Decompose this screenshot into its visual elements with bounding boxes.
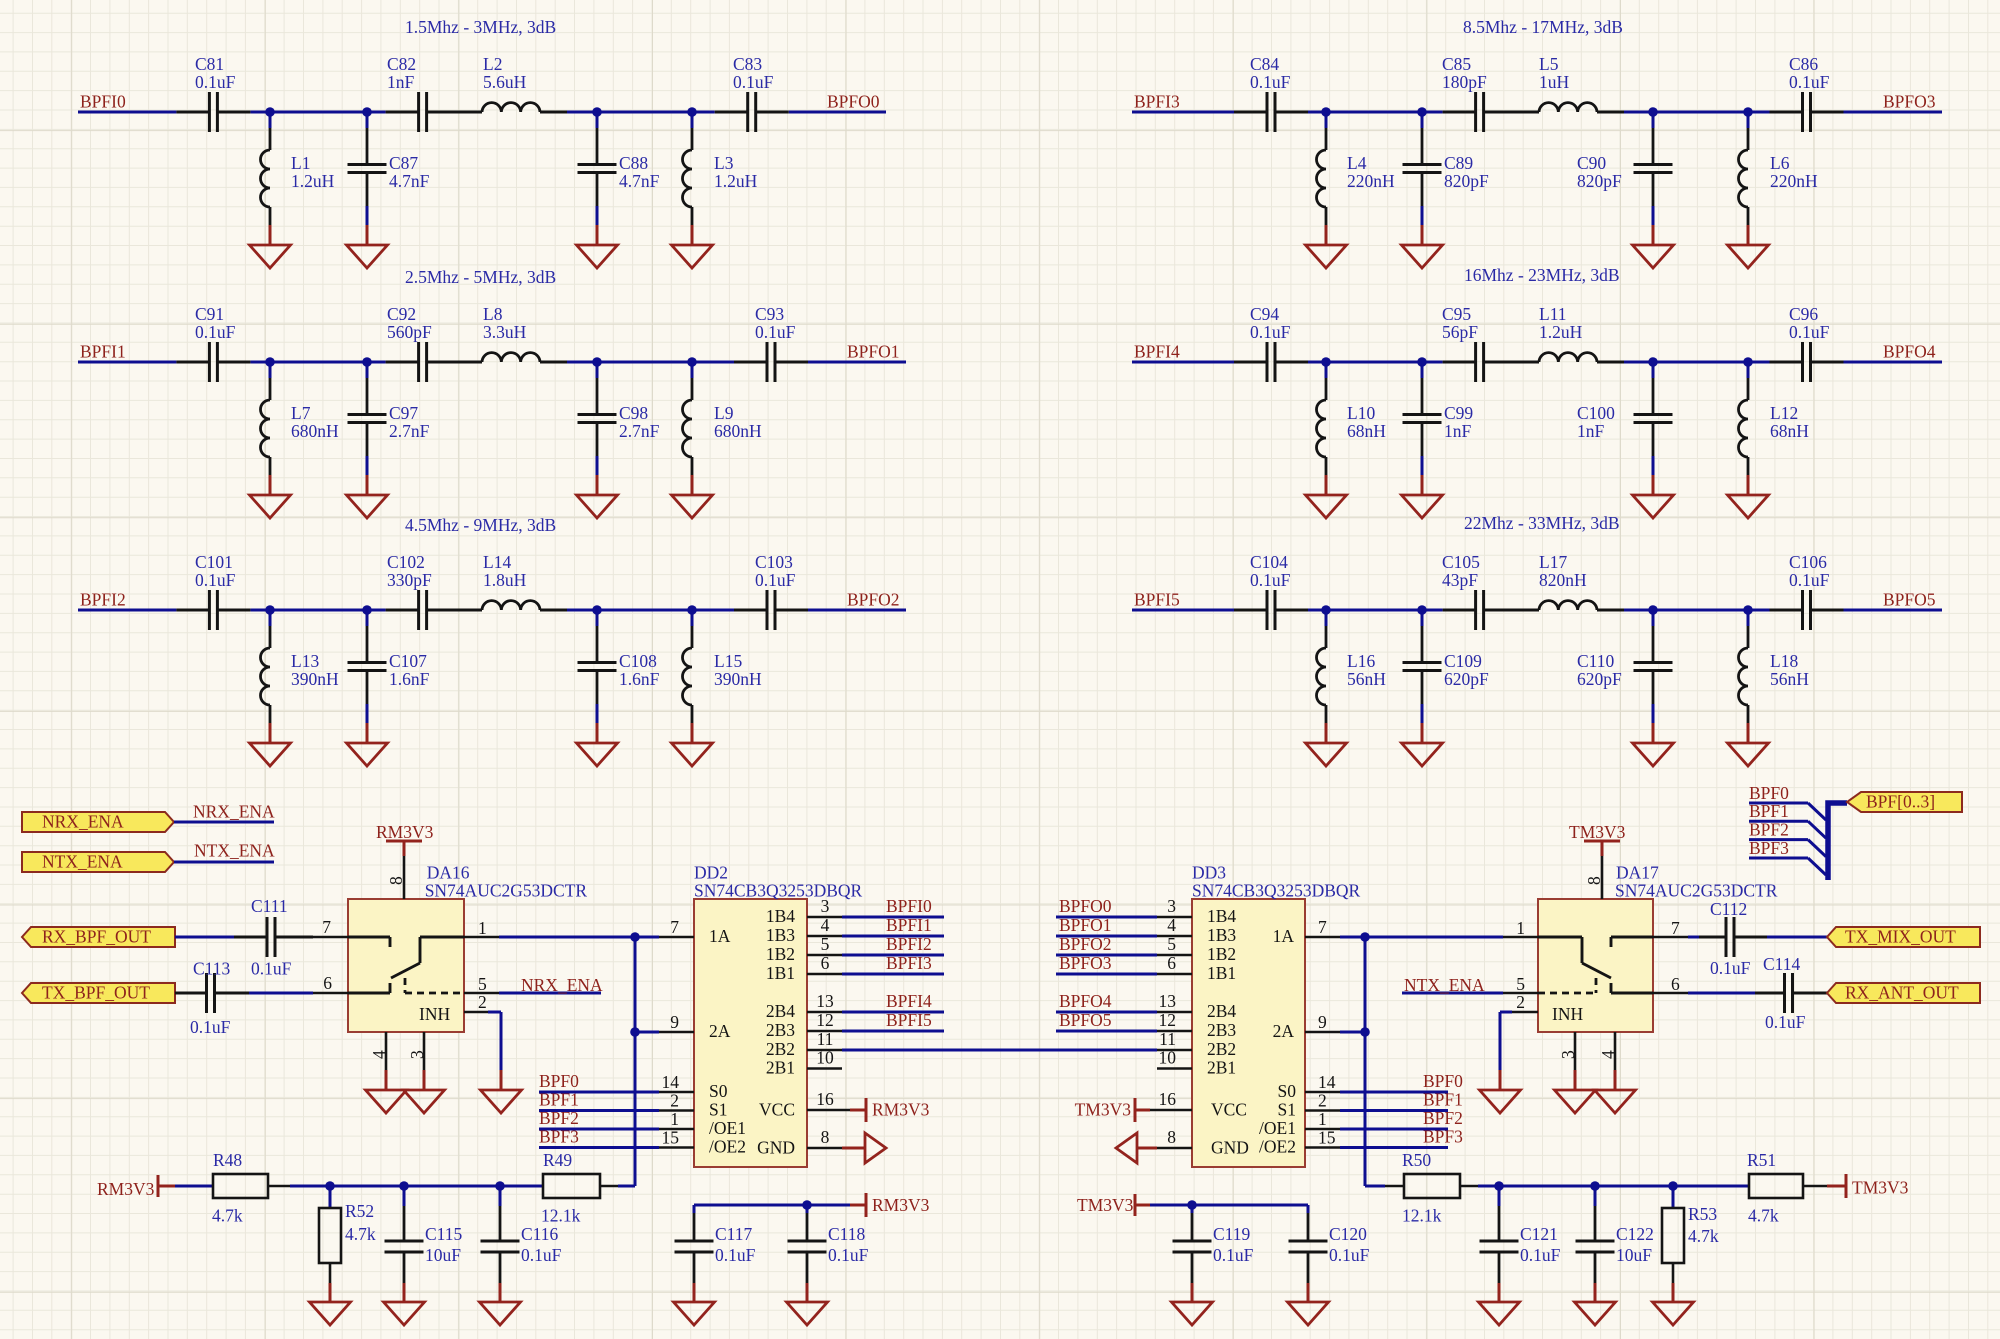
ground for C108 — [577, 743, 618, 766]
svg-text:BPF3: BPF3 — [539, 1127, 579, 1147]
ground for L10 — [1306, 495, 1347, 518]
svg-text:1.6nF: 1.6nF — [619, 669, 660, 689]
svg-text:680nH: 680nH — [714, 421, 762, 441]
svg-text:4.7nF: 4.7nF — [389, 171, 430, 191]
wire R48 to R49 — [268, 1185, 290, 1188]
junction — [362, 107, 372, 117]
svg-text:BPFO5: BPFO5 — [1883, 590, 1936, 610]
capacitor C107 — [366, 610, 369, 626]
svg-text:C96: C96 — [1789, 304, 1818, 324]
svg-text:C94: C94 — [1250, 304, 1279, 324]
svg-text:0.1uF: 0.1uF — [1765, 1012, 1806, 1032]
svg-text:L2: L2 — [483, 54, 502, 74]
svg-text:0.1uF: 0.1uF — [521, 1245, 562, 1265]
DA16 pin 7 — [313, 936, 348, 939]
svg-text:BPF0: BPF0 — [1749, 783, 1789, 803]
junction — [1417, 107, 1427, 117]
ground for C88 — [577, 245, 618, 268]
svg-text:BPFI5: BPFI5 — [886, 1010, 932, 1030]
svg-text:2B3: 2B3 — [766, 1020, 795, 1040]
capacitor C87 — [366, 112, 369, 128]
svg-text:INH: INH — [1552, 1004, 1583, 1024]
power RM3V3 — [865, 1193, 868, 1217]
svg-text:0.1uF: 0.1uF — [828, 1245, 869, 1265]
svg-text:INH: INH — [419, 1004, 450, 1024]
svg-text:/OE2: /OE2 — [709, 1137, 746, 1157]
svg-text:8: 8 — [821, 1127, 830, 1147]
ground for L4 — [1306, 245, 1347, 268]
DD2 pin 7 — [659, 936, 694, 939]
svg-text:TM3V3: TM3V3 — [1852, 1178, 1909, 1198]
svg-text:NTX_ENA: NTX_ENA — [1404, 975, 1485, 995]
wire BPFI1-C91 internal segments — [250, 361, 385, 364]
svg-text:L9: L9 — [714, 403, 734, 423]
wire net BPFI0 segment — [78, 111, 176, 114]
port BPF[0..3] — [1847, 792, 1962, 812]
svg-text:C113: C113 — [193, 959, 231, 979]
svg-text:BPFO1: BPFO1 — [847, 342, 900, 362]
svg-text:L1: L1 — [291, 153, 310, 173]
svg-text:BPFI4: BPFI4 — [886, 991, 932, 1011]
ground for C107 — [347, 743, 388, 766]
inductor L7 — [269, 362, 272, 378]
DA17 pin 4 — [1614, 1032, 1617, 1070]
svg-text:BPFO5: BPFO5 — [1059, 1010, 1112, 1030]
wire net BPFO0 segment — [789, 111, 886, 114]
svg-text:2B4: 2B4 — [1207, 1001, 1236, 1021]
capacitor C111 — [234, 936, 267, 939]
DD3 pin 2 — [1305, 1109, 1340, 1112]
junction — [687, 107, 697, 117]
svg-text:16Mhz - 23MHz, 3dB: 16Mhz - 23MHz, 3dB — [1464, 265, 1620, 285]
svg-text:1B4: 1B4 — [1207, 906, 1236, 926]
junction — [1648, 357, 1658, 367]
svg-text:1.6nF: 1.6nF — [389, 669, 430, 689]
ground for L6 — [1728, 245, 1769, 268]
svg-text:DD3: DD3 — [1192, 863, 1226, 883]
capacitor C97 — [366, 362, 369, 378]
svg-text:2B1: 2B1 — [766, 1058, 795, 1078]
DD2 pin 5 — [807, 954, 842, 957]
port RX_ANT_OUT — [1827, 983, 1980, 1003]
DA17 switch symbol — [1611, 936, 1653, 939]
resistor R50 — [1404, 1174, 1460, 1198]
DD2 pin 10 — [807, 1067, 842, 1070]
svg-text:2A: 2A — [709, 1021, 731, 1041]
svg-text:7: 7 — [322, 917, 331, 937]
DD2 pin 8 GND — [807, 1147, 842, 1150]
wire DA17 pin 2 to ground — [1500, 1011, 1512, 1014]
svg-text:2B1: 2B1 — [1207, 1058, 1236, 1078]
capacitor C92 — [386, 361, 419, 364]
capacitor C82 — [386, 111, 419, 114]
inductor L4 — [1325, 112, 1328, 128]
inductor L18 — [1747, 610, 1750, 626]
svg-text:BPF0: BPF0 — [1423, 1071, 1463, 1091]
svg-text:GND: GND — [757, 1137, 795, 1157]
inductor L12 — [1747, 362, 1750, 378]
wire net BPF3 bus entry — [1749, 857, 1808, 860]
svg-text:C92: C92 — [387, 304, 416, 324]
capacitor C105 — [1443, 609, 1476, 612]
svg-text:R49: R49 — [543, 1150, 572, 1170]
port NRX_ENA — [22, 812, 174, 832]
svg-text:C110: C110 — [1577, 651, 1615, 671]
svg-text:L11: L11 — [1539, 304, 1567, 324]
svg-text:10: 10 — [816, 1048, 834, 1068]
junction — [399, 1181, 409, 1191]
svg-text:2.5Mhz - 5MHz, 3dB: 2.5Mhz - 5MHz, 3dB — [405, 267, 556, 287]
ground at DA17 pin 2 — [1480, 1090, 1521, 1113]
power ground arrow left — [1116, 1133, 1137, 1163]
svg-text:3.3uH: 3.3uH — [483, 322, 527, 342]
wire net BPFO2 segment — [808, 609, 906, 612]
svg-text:BPF2: BPF2 — [1749, 820, 1789, 840]
svg-text:330pF: 330pF — [387, 570, 432, 590]
capacitor C106 — [1770, 609, 1803, 612]
ground for L13 — [250, 743, 291, 766]
svg-text:2B2: 2B2 — [766, 1039, 795, 1059]
svg-text:4: 4 — [1598, 1050, 1618, 1059]
svg-text:22Mhz - 33MHz, 3dB: 22Mhz - 33MHz, 3dB — [1464, 513, 1620, 533]
junction — [630, 1027, 640, 1037]
ground for C116 — [480, 1302, 521, 1325]
DD2 pin 1 — [659, 1128, 694, 1131]
DD3 pin 3 — [1157, 916, 1192, 919]
port TX_BPF_OUT — [22, 983, 175, 1003]
wire net BPFO4 — [1056, 1011, 1157, 1014]
svg-text:L8: L8 — [483, 304, 503, 324]
svg-text:16: 16 — [1159, 1089, 1177, 1109]
svg-text:RX_BPF_OUT: RX_BPF_OUT — [42, 927, 151, 947]
ground for L9 — [672, 495, 713, 518]
svg-text:C100: C100 — [1577, 403, 1615, 423]
svg-text:0.1uF: 0.1uF — [251, 959, 292, 979]
DD2 pin 15 — [659, 1146, 694, 1149]
wire net BPF3 — [539, 1146, 659, 1149]
wire DA16 pin 2 to ground — [488, 1011, 501, 1014]
svg-text:C95: C95 — [1442, 304, 1471, 324]
wire net BPFI1 — [842, 935, 944, 938]
inductor L11 — [1512, 361, 1539, 364]
svg-text:C117: C117 — [715, 1224, 753, 1244]
svg-text:BPF3: BPF3 — [1423, 1127, 1463, 1147]
svg-text:BPFI3: BPFI3 — [886, 953, 932, 973]
svg-text:SN74AUC2G53DCTR: SN74AUC2G53DCTR — [425, 881, 588, 901]
DD3 pin 10 — [1157, 1067, 1192, 1070]
svg-text:S0: S0 — [709, 1081, 728, 1101]
svg-text:C85: C85 — [1442, 54, 1471, 74]
svg-text:VCC: VCC — [1211, 1100, 1247, 1120]
svg-text:820pF: 820pF — [1444, 171, 1489, 191]
svg-text:43pF: 43pF — [1442, 570, 1478, 590]
svg-text:0.1uF: 0.1uF — [755, 570, 796, 590]
svg-text:8: 8 — [1167, 1127, 1176, 1147]
wire net BPFI2 segment — [78, 609, 176, 612]
wire BPFI3-C84 internal segments — [1308, 111, 1443, 114]
svg-text:C97: C97 — [389, 403, 418, 423]
svg-text:C114: C114 — [1763, 954, 1801, 974]
ground for R52 — [310, 1302, 351, 1325]
svg-text:0.1uF: 0.1uF — [1250, 570, 1291, 590]
DD2 pin 13 — [807, 1011, 842, 1014]
svg-text:TM3V3: TM3V3 — [1077, 1195, 1134, 1215]
svg-text:BPF0: BPF0 — [539, 1071, 579, 1091]
svg-text:C122: C122 — [1616, 1224, 1654, 1244]
wire net BPFO4 segment — [1844, 361, 1943, 364]
svg-text:56pF: 56pF — [1442, 322, 1478, 342]
wire net BPFI4 — [842, 1011, 944, 1014]
power RM3V3 — [386, 840, 422, 843]
DD3 pin 4 — [1157, 935, 1192, 938]
capacitor C89 — [1421, 112, 1424, 128]
ground for L3 — [672, 245, 713, 268]
svg-text:820nH: 820nH — [1539, 570, 1587, 590]
svg-text:L10: L10 — [1347, 403, 1375, 423]
svg-text:BPFI0: BPFI0 — [886, 896, 932, 916]
wire DD3 pin 9 — [1340, 1031, 1365, 1034]
svg-text:DA17: DA17 — [1616, 863, 1659, 883]
svg-text:1A: 1A — [709, 926, 731, 946]
svg-text:1.2uH: 1.2uH — [714, 171, 758, 191]
svg-text:NTX_ENA: NTX_ENA — [194, 841, 275, 861]
power TM3V3 — [1134, 1098, 1137, 1122]
svg-text:0.1uF: 0.1uF — [1329, 1245, 1370, 1265]
DD3 pin 9 — [1305, 1031, 1340, 1034]
wire vertical to R50 — [1365, 1185, 1385, 1188]
wire DA17 pin6 to C114 — [1688, 992, 1755, 995]
svg-text:5: 5 — [1167, 934, 1176, 954]
svg-text:C107: C107 — [389, 651, 427, 671]
svg-text:8.5Mhz - 17MHz, 3dB: 8.5Mhz - 17MHz, 3dB — [1463, 17, 1623, 37]
DD3 pin 6 — [1157, 973, 1192, 976]
ground for R53 — [1653, 1302, 1694, 1325]
svg-text:1B2: 1B2 — [766, 944, 795, 964]
svg-text:BPF2: BPF2 — [1423, 1108, 1463, 1128]
power TM3V3 — [1845, 1174, 1848, 1198]
DD3 pin 8 GND — [1157, 1147, 1192, 1150]
inductor L14 — [455, 609, 482, 612]
svg-text:56nH: 56nH — [1347, 669, 1386, 689]
svg-text:L17: L17 — [1539, 552, 1567, 572]
svg-text:TX_BPF_OUT: TX_BPF_OUT — [42, 983, 150, 1003]
svg-text:BPFI0: BPFI0 — [80, 92, 126, 112]
DD3 pin 11 — [1157, 1049, 1192, 1052]
svg-text:1.5Mhz - 3MHz, 3dB: 1.5Mhz - 3MHz, 3dB — [405, 17, 556, 37]
capacitor C85 — [1443, 111, 1476, 114]
power ground arrow right — [865, 1133, 886, 1163]
svg-text:/OE1: /OE1 — [709, 1118, 746, 1138]
capacitor C122 — [1594, 1186, 1597, 1206]
junction — [1743, 107, 1753, 117]
inductor L16 — [1325, 610, 1328, 626]
capacitor C88 — [596, 112, 599, 128]
svg-text:2.7nF: 2.7nF — [389, 421, 430, 441]
svg-text:5: 5 — [478, 974, 487, 994]
svg-text:L12: L12 — [1770, 403, 1798, 423]
svg-text:BPF[0..3]: BPF[0..3] — [1866, 792, 1935, 812]
wire net BPF1 — [1340, 1109, 1448, 1112]
wire net BPFO3 segment — [1844, 111, 1943, 114]
svg-text:RM3V3: RM3V3 — [376, 822, 434, 842]
analog switch DA16 SN74AUC2G53DCTR — [348, 899, 464, 1032]
capacitor C116 — [499, 1186, 502, 1206]
svg-text:VCC: VCC — [759, 1100, 795, 1120]
junction — [1321, 357, 1331, 367]
svg-text:C83: C83 — [733, 54, 762, 74]
analog switch DA17 SN74AUC2G53DCTR — [1538, 899, 1653, 1032]
capacitor C83 — [715, 111, 748, 114]
svg-text:BPF2: BPF2 — [539, 1108, 579, 1128]
capacitor C110 — [1652, 610, 1655, 626]
capacitor C117 — [693, 1205, 696, 1213]
svg-text:12: 12 — [816, 1010, 834, 1030]
capacitor C102 — [386, 609, 419, 612]
svg-text:RM3V3: RM3V3 — [872, 1195, 930, 1215]
svg-text:C87: C87 — [389, 153, 418, 173]
svg-text:C105: C105 — [1442, 552, 1480, 572]
svg-text:C91: C91 — [195, 304, 224, 324]
svg-text:TM3V3: TM3V3 — [1075, 1100, 1132, 1120]
svg-text:9: 9 — [670, 1012, 679, 1032]
ground for C97 — [347, 495, 388, 518]
DA16 pin 3 — [423, 1032, 426, 1070]
svg-text:0.1uF: 0.1uF — [1789, 72, 1830, 92]
svg-text:C119: C119 — [1213, 1224, 1251, 1244]
svg-text:C99: C99 — [1444, 403, 1473, 423]
svg-text:5: 5 — [1516, 974, 1525, 994]
DA16 pin 8 — [403, 856, 406, 899]
svg-text:6: 6 — [1671, 974, 1680, 994]
junction — [265, 605, 275, 615]
svg-text:0.1uF: 0.1uF — [195, 72, 236, 92]
wire DD3 pin7 to DA17 pin1 — [1340, 936, 1503, 939]
svg-text:2: 2 — [1318, 1091, 1327, 1111]
svg-text:4.7nF: 4.7nF — [619, 171, 660, 191]
svg-text:NRX_ENA: NRX_ENA — [193, 802, 275, 822]
svg-text:4.7k: 4.7k — [1748, 1206, 1779, 1226]
svg-text:BPFI4: BPFI4 — [1134, 342, 1180, 362]
DD3 pin 15 — [1305, 1146, 1340, 1149]
svg-text:8: 8 — [386, 876, 406, 885]
svg-text:0.1uF: 0.1uF — [1789, 570, 1830, 590]
DA16 pin 6 — [313, 992, 348, 995]
wire net BPFO2 — [1056, 954, 1157, 957]
wire RM3V3 to R48 — [175, 1185, 213, 1188]
svg-text:C102: C102 — [387, 552, 425, 572]
svg-text:11: 11 — [817, 1029, 834, 1049]
wire BPFI2-C101 internal segments — [250, 609, 385, 612]
DA17 pin 2 — [1512, 1011, 1538, 1014]
wire net BPF0 bus entry — [1749, 802, 1808, 805]
svg-text:10: 10 — [1159, 1048, 1177, 1068]
inductor L1 — [269, 112, 272, 128]
svg-text:0.1uF: 0.1uF — [1250, 72, 1291, 92]
svg-text:C89: C89 — [1444, 153, 1473, 173]
ground for C110 — [1633, 743, 1674, 766]
inductor L15 — [691, 610, 694, 626]
capacitor C119 — [1191, 1205, 1194, 1213]
svg-text:6: 6 — [323, 973, 332, 993]
svg-text:12: 12 — [1159, 1010, 1177, 1030]
svg-text:2.7nF: 2.7nF — [619, 421, 660, 441]
svg-text:SN74AUC2G53DCTR: SN74AUC2G53DCTR — [1615, 881, 1778, 901]
inductor L5 — [1512, 111, 1539, 114]
junction — [1321, 107, 1331, 117]
DA16 switch symbol — [348, 936, 390, 939]
svg-text:C81: C81 — [195, 54, 224, 74]
svg-text:13: 13 — [1159, 991, 1177, 1011]
junction — [1321, 605, 1331, 615]
DD2 pin 9 — [659, 1031, 694, 1034]
port RX_BPF_OUT — [22, 927, 175, 947]
wire net BPFI3 segment — [1132, 111, 1234, 114]
wire BPFI4-C94 internal segments — [1308, 361, 1443, 364]
DA17 pin 6 — [1653, 992, 1688, 995]
wire net BPF2 — [1340, 1128, 1448, 1131]
inductor L17 — [1512, 609, 1539, 612]
svg-text:1: 1 — [478, 918, 487, 938]
svg-text:12.1k: 12.1k — [541, 1206, 581, 1226]
svg-text:NRX_ENA: NRX_ENA — [42, 812, 124, 832]
junction — [1417, 357, 1427, 367]
svg-text:R48: R48 — [213, 1150, 242, 1170]
capacitor C118 — [806, 1205, 809, 1213]
ground at DA16 pin 3 — [404, 1090, 445, 1113]
svg-text:3: 3 — [1167, 896, 1176, 916]
junction — [1590, 1181, 1600, 1191]
capacitor C103 — [734, 609, 767, 612]
svg-text:220nH: 220nH — [1770, 171, 1818, 191]
capacitor C101 — [176, 609, 209, 612]
wire net NTX_ENA at DA17 pin 5 — [1402, 992, 1503, 995]
power stem RM3V3 — [403, 841, 406, 856]
svg-text:3: 3 — [821, 896, 830, 916]
capacitor C93 — [734, 361, 767, 364]
port NTX_ENA — [22, 852, 174, 872]
svg-text:13: 13 — [816, 991, 834, 1011]
capacitor C99 — [1421, 362, 1424, 378]
wire net NTX_ENA — [174, 861, 274, 864]
svg-text:L15: L15 — [714, 651, 742, 671]
svg-text:L16: L16 — [1347, 651, 1375, 671]
ground for C120 — [1288, 1302, 1329, 1325]
wire to DD2 pin 9 — [635, 1031, 659, 1034]
svg-text:BPFI2: BPFI2 — [886, 934, 932, 954]
inductor L6 — [1747, 112, 1750, 128]
svg-text:1nF: 1nF — [387, 72, 415, 92]
svg-text:4.7k: 4.7k — [212, 1206, 243, 1226]
svg-text:R53: R53 — [1688, 1204, 1717, 1224]
ground for L18 — [1728, 743, 1769, 766]
svg-text:BPFO2: BPFO2 — [1059, 934, 1112, 954]
svg-text:1B3: 1B3 — [1207, 925, 1236, 945]
svg-text:1: 1 — [670, 1109, 679, 1129]
bus BPF[0..3] — [1828, 803, 1847, 880]
wire net BPFI3 — [842, 973, 944, 976]
svg-text:10uF: 10uF — [425, 1245, 461, 1265]
DA17 pin 7 — [1653, 936, 1688, 939]
inductor L3 — [691, 112, 694, 128]
ground for L15 — [672, 743, 713, 766]
junction — [1417, 605, 1427, 615]
svg-text:BPFO4: BPFO4 — [1059, 991, 1112, 1011]
svg-text:BPFO3: BPFO3 — [1059, 953, 1112, 973]
junction — [362, 357, 372, 367]
svg-text:68nH: 68nH — [1770, 421, 1809, 441]
DA16 pin 5 — [464, 992, 499, 995]
ground for C117 — [674, 1302, 715, 1325]
